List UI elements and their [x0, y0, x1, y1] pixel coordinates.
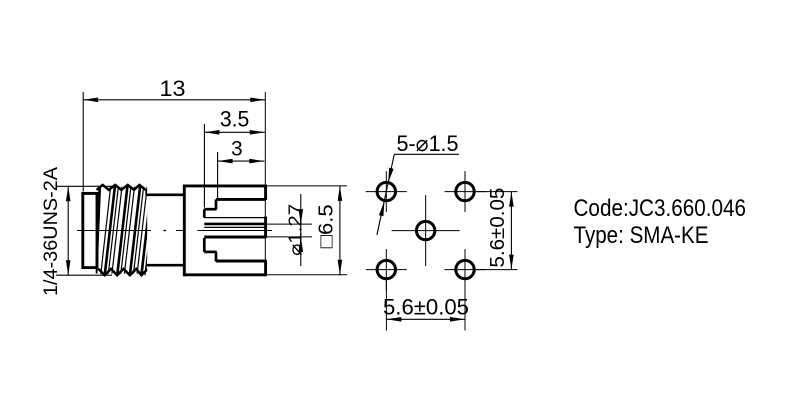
hole bottom-right: [445, 249, 486, 290]
dimension 3.5 (leg length): [204, 107, 264, 208]
hole center: [392, 195, 460, 266]
thread designation 1/4-36UNS-2A with OD dimension: [41, 167, 112, 296]
horizontal centerline of side view: [77, 230, 272, 232]
dimension 13 (overall length): [83, 76, 265, 275]
svg-text:1/4-36UNS-2A: 1/4-36UNS-2A: [41, 167, 62, 296]
hole top-left: [366, 171, 407, 212]
svg-text:3.5: 3.5: [220, 107, 250, 132]
svg-text:⌀1.27: ⌀1.27: [286, 204, 306, 256]
hole top-right: [445, 171, 486, 212]
center pin (dia 1.27) inside middle leg: [204, 224, 265, 237]
connector flange (side view left cap): [83, 193, 97, 267]
svg-text:Code:JC3.660.046: Code:JC3.660.046: [574, 195, 747, 222]
svg-text:5-⌀1.5: 5-⌀1.5: [397, 131, 459, 156]
dimension dia 1.27 (center pin): [266, 194, 312, 266]
label 5-dia 1.5 with leader: [377, 131, 459, 235]
connector body with PCB legs (E-shaped profile): [184, 185, 265, 277]
dimension 5.6 +/-0.05 horizontal (hole spacing): [383, 281, 469, 331]
svg-text:3: 3: [231, 137, 243, 160]
svg-text:□6.5: □6.5: [316, 204, 338, 248]
svg-text:13: 13: [160, 76, 186, 101]
hole bottom-left: [366, 249, 407, 290]
dimension 5.6 +/-0.05 vertical (hole spacing): [477, 188, 518, 270]
dimension 3 (pin leg length): [218, 137, 265, 199]
dimension square 6.5 (body cross-section): [267, 186, 347, 275]
svg-text:5.6±0.05: 5.6±0.05: [383, 295, 469, 320]
barrel section between thread and body: [146, 190, 184, 269]
part type text: [574, 222, 709, 249]
svg-text:Type: SMA-KE: Type: SMA-KE: [574, 222, 709, 249]
svg-text:5.6±0.05: 5.6±0.05: [487, 188, 509, 268]
threaded section with hatching (1/4-36UNS thread): [96, 185, 159, 275]
part code text: [574, 195, 747, 222]
